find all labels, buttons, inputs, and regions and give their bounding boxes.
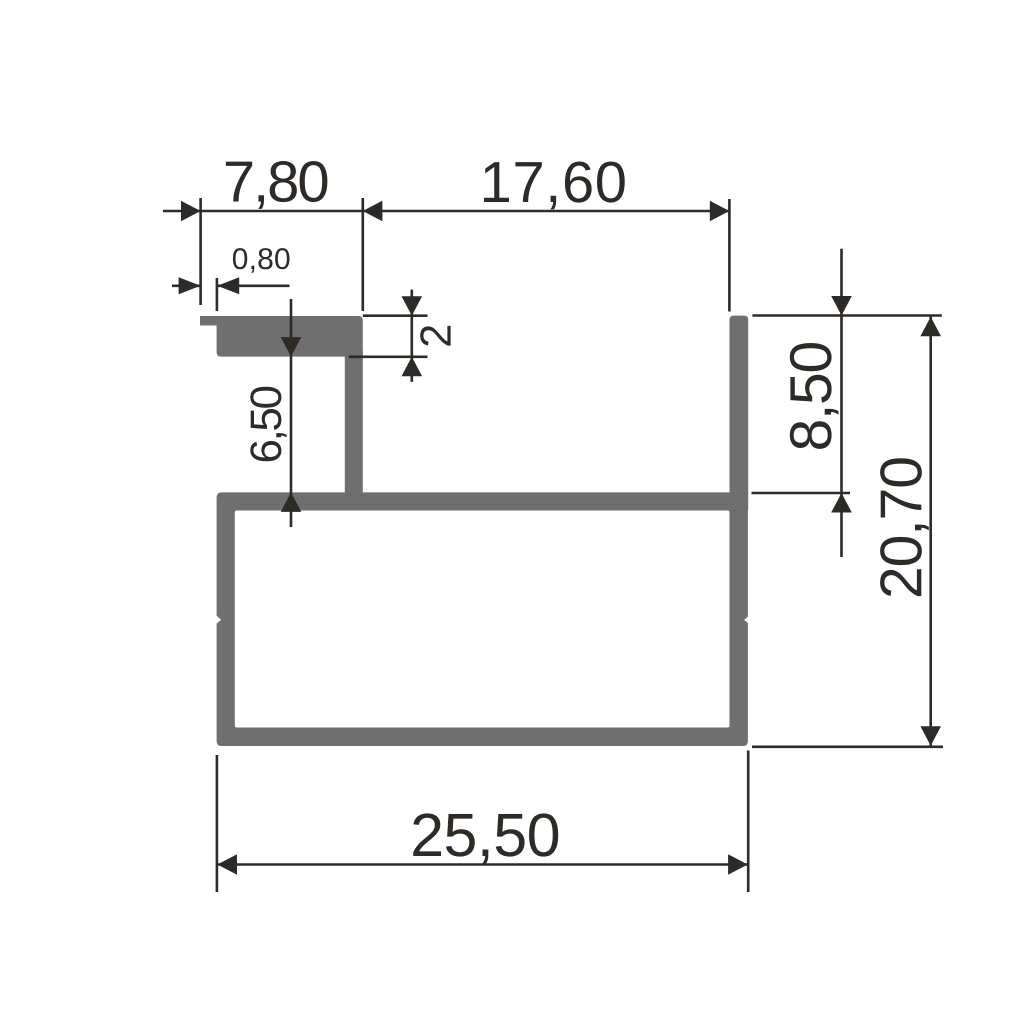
arrow 0,80 left — [179, 277, 201, 294]
dimension 20,70 — [752, 317, 943, 747]
wire dim line bottom — [217, 863, 748, 866]
notch right wall — [744, 615, 749, 624]
arrow 20,70 top — [920, 317, 941, 337]
arrow 8,50 bottom — [831, 493, 852, 513]
arrow 0,80 right — [217, 277, 239, 294]
wire tail right — [217, 284, 289, 287]
dimension 0,80 — [172, 277, 290, 311]
extension line x=363 — [361, 198, 364, 311]
dimension 7,80 and 17,60 top chain — [163, 198, 729, 312]
profile main tube (rectangular hollow section) — [217, 492, 748, 746]
label 20,70 — [880, 458, 929, 596]
profile right bar (vertical wall above tube) — [730, 316, 749, 510]
wire vertical — [290, 299, 293, 527]
label 25,50 — [413, 813, 558, 863]
arrow 2 bottom — [402, 357, 423, 377]
dimension 8,50 — [752, 249, 942, 557]
dimension 6,50 — [281, 299, 302, 527]
profile stem (vertical web under cap) — [345, 350, 363, 493]
arrow 25,50 left — [217, 854, 237, 875]
extension line x=748 — [747, 751, 750, 893]
profile cap (top-left flange with lip) — [200, 316, 363, 357]
wire dim line top — [163, 210, 729, 213]
dimension 25,50 — [217, 751, 748, 893]
arrow 7,80 left — [181, 201, 201, 222]
tick bottom — [752, 745, 943, 748]
label 8,50 — [790, 343, 839, 449]
tick top shared — [752, 314, 941, 317]
arrow 8,50 top — [831, 296, 852, 316]
dimension 2 — [349, 290, 428, 382]
wire tail left — [172, 284, 201, 287]
label 2 — [420, 326, 450, 346]
extension line x=217 — [216, 755, 219, 892]
extension line x=200 — [199, 198, 202, 305]
arrow 20,70 bottom — [920, 726, 941, 746]
label 17,60 — [484, 162, 625, 210]
extension line x=217 — [216, 278, 219, 311]
wire vertical — [410, 290, 413, 382]
wire vertical — [929, 317, 932, 747]
wire vertical — [840, 249, 843, 557]
extension line x=730 — [728, 199, 731, 312]
tick top — [363, 314, 428, 317]
arrow 25,50 right — [728, 854, 748, 875]
label 0,80 — [233, 248, 290, 273]
arrow 7,80 right / 17,60 left — [363, 201, 383, 222]
arrow 2 top — [402, 296, 423, 316]
arrow 6,50 bottom — [281, 492, 302, 512]
label 6,50 — [250, 387, 286, 461]
notch left wall — [215, 615, 221, 625]
arrow 17,60 right — [710, 201, 730, 222]
label 7,80 — [226, 161, 328, 209]
arrow 6,50 top — [281, 337, 302, 357]
tick bottom — [752, 492, 851, 495]
tick bottom — [349, 355, 428, 358]
